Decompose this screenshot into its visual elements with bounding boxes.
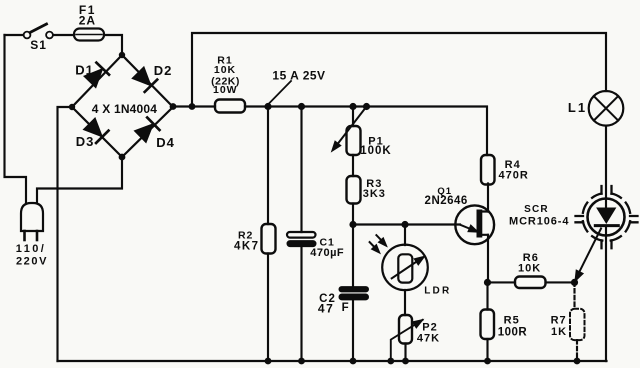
svg-text:S1: S1 <box>30 38 47 52</box>
svg-text:LDR: LDR <box>424 285 451 296</box>
svg-text:47: 47 <box>318 301 334 315</box>
svg-text:D2: D2 <box>154 63 173 78</box>
svg-text:100R: 100R <box>498 327 528 339</box>
svg-text:10W: 10W <box>213 84 238 96</box>
svg-text:220V: 220V <box>16 256 48 268</box>
svg-text:10K: 10K <box>518 262 541 274</box>
svg-text:1K: 1K <box>551 326 567 338</box>
svg-text:15 A 25V: 15 A 25V <box>272 68 325 82</box>
svg-text:470R: 470R <box>499 169 529 181</box>
svg-text:10K: 10K <box>214 64 236 76</box>
svg-text:47K: 47K <box>417 333 440 345</box>
svg-text:SCR: SCR <box>524 204 549 215</box>
svg-text:D4: D4 <box>156 135 175 150</box>
svg-text:470µF: 470µF <box>310 247 344 259</box>
svg-text:110/: 110/ <box>16 243 46 255</box>
svg-text:2N2646: 2N2646 <box>425 195 468 207</box>
svg-text:2A: 2A <box>79 13 96 27</box>
svg-text:D1: D1 <box>75 63 94 78</box>
svg-text:4K7: 4K7 <box>234 240 260 252</box>
svg-text:4 X 1N4004: 4 X 1N4004 <box>92 102 158 116</box>
svg-text:100K: 100K <box>360 145 392 157</box>
svg-text:R7: R7 <box>551 314 567 326</box>
svg-text:F: F <box>342 302 349 314</box>
svg-text:D3: D3 <box>76 134 95 149</box>
svg-text:R5: R5 <box>504 314 520 326</box>
svg-text:MCR106-4: MCR106-4 <box>509 216 569 228</box>
svg-text:L1: L1 <box>568 100 587 115</box>
svg-text:3K3: 3K3 <box>363 188 386 200</box>
